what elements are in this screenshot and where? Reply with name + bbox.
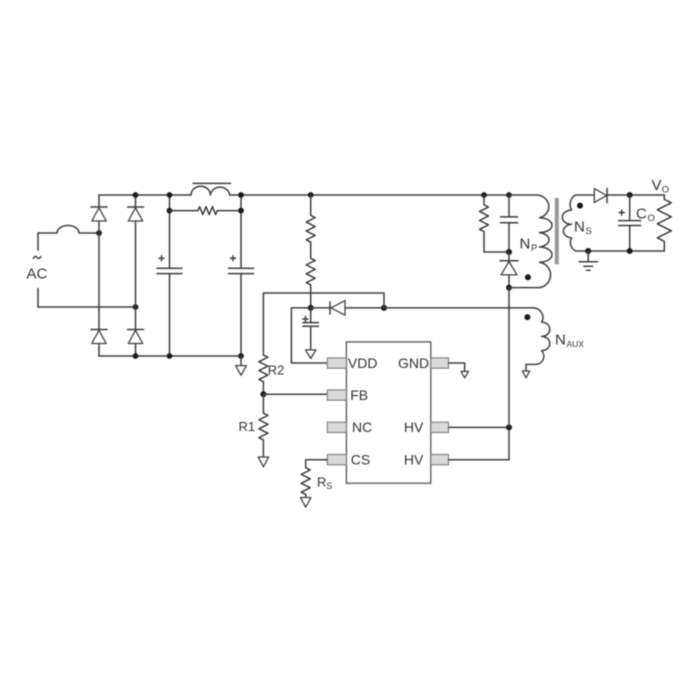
wire CS pin <box>306 460 328 468</box>
svg-text:N: N <box>520 236 531 253</box>
pin HV lower <box>431 455 449 465</box>
pin CS <box>327 455 346 465</box>
node AC hot / bridge left <box>96 230 102 236</box>
wire node B to aux winding <box>384 307 533 309</box>
svg-text:FB: FB <box>350 387 368 403</box>
capacitor clamp <box>501 195 518 252</box>
svg-text:N: N <box>555 332 566 349</box>
svg-text:V: V <box>652 177 662 194</box>
diode D2 bridge top-right <box>128 207 144 221</box>
pin FB <box>327 390 346 400</box>
capacitor C3 vdd <box>303 308 319 350</box>
wire top rail after inductor <box>230 194 509 196</box>
svg-text:AUX: AUX <box>567 339 585 349</box>
resistor load <box>657 195 671 251</box>
diode D5 vdd rectifier <box>311 301 384 316</box>
winding Np primary <box>509 195 552 288</box>
capacitor C2 bulk <box>229 195 254 356</box>
ground aux winding <box>522 371 529 378</box>
diode D4 bridge bottom-right <box>128 330 144 344</box>
resistor R1 <box>259 394 268 457</box>
wire vdd pin link <box>291 308 327 363</box>
pin HV upper <box>431 422 449 432</box>
node HV junction <box>506 424 512 430</box>
phase dot primary <box>525 274 531 280</box>
node C1 resistor tap <box>167 208 173 214</box>
resistor clamp <box>480 195 510 252</box>
winding Ns secondary <box>562 195 664 251</box>
wire HV lower pin <box>449 427 510 459</box>
capacitor C1 bulk <box>157 195 182 356</box>
resistor startup lower <box>306 242 315 308</box>
resistor startup upper <box>306 195 315 242</box>
wire AC neutral bottom <box>38 306 136 308</box>
svg-text:P: P <box>531 243 537 254</box>
svg-text:HV: HV <box>404 452 424 468</box>
capacitor Co output <box>619 195 641 251</box>
node A vdd junction <box>308 305 314 311</box>
svg-text:VDD: VDD <box>348 355 378 371</box>
pin GND <box>431 358 449 368</box>
node startup branch top <box>308 192 314 198</box>
inductor L1 <box>191 183 231 195</box>
pin NC <box>327 422 346 432</box>
diode D7 output rectifier <box>594 188 664 202</box>
phase dot secondary <box>577 203 583 209</box>
AC source leads <box>37 233 39 307</box>
AC tilde <box>33 256 41 258</box>
svg-text:O: O <box>662 185 669 196</box>
node output cap top <box>627 192 633 198</box>
node output cap bottom <box>627 248 633 254</box>
transformer core <box>555 198 559 264</box>
IC U1 body <box>346 342 430 483</box>
svg-text:AC: AC <box>27 266 48 283</box>
node primary bottom <box>506 285 512 291</box>
diode D3 bridge bottom-left <box>91 330 107 344</box>
resistor R2 <box>259 355 268 394</box>
node C2 resistor tap <box>238 208 244 214</box>
node B aux feed junction <box>381 305 387 311</box>
node top rail bridge right <box>133 192 139 198</box>
fuse F1 <box>38 226 99 234</box>
winding Naux auxiliary <box>526 308 550 371</box>
node C2 top <box>238 192 244 198</box>
resistor R3 damping parallel <box>170 207 242 215</box>
svg-text:CS: CS <box>351 452 370 468</box>
diode D1 bridge top-left <box>91 207 107 221</box>
svg-text:R2: R2 <box>268 363 285 378</box>
wire GND pin <box>449 363 465 371</box>
wire drain line <box>508 288 510 428</box>
resistor Rs <box>301 468 310 498</box>
node C2 bottom <box>238 353 244 359</box>
svg-text:O: O <box>648 213 655 224</box>
node bottom bridge right leg <box>133 353 139 359</box>
svg-text:S: S <box>326 481 332 491</box>
node C1 top <box>167 192 173 198</box>
node clamp resistor top <box>481 192 487 198</box>
wire HV upper pin <box>449 426 510 428</box>
svg-text:N: N <box>574 219 585 236</box>
ground bridge output <box>236 356 247 375</box>
node C feedback divider <box>260 391 266 397</box>
diode D6 clamp <box>500 252 518 288</box>
ground vdd cap <box>306 350 316 359</box>
pin VDD <box>327 358 346 368</box>
node secondary ground tap <box>585 248 591 254</box>
wire bottom rail <box>99 355 241 357</box>
wire bridge left leg <box>98 195 100 356</box>
ground Rs <box>301 498 311 508</box>
node C1 bottom <box>167 353 173 359</box>
svg-text:HV: HV <box>404 419 424 435</box>
svg-text:R: R <box>317 475 326 490</box>
svg-text:C: C <box>636 206 647 223</box>
svg-text:R1: R1 <box>239 419 256 434</box>
svg-text:S: S <box>586 226 592 237</box>
node clamp cap top <box>506 192 512 198</box>
ground R1 <box>258 457 268 467</box>
svg-text:NC: NC <box>352 419 372 435</box>
node AC neutral / bridge right <box>133 304 139 310</box>
wire top rail <box>99 194 191 196</box>
wire R2 top link <box>263 293 384 355</box>
wire bridge right leg <box>135 195 137 356</box>
node clamp bottom <box>506 249 512 255</box>
wire FB link <box>263 393 327 395</box>
earth ground secondary <box>579 251 597 270</box>
ground GND pin <box>461 371 468 378</box>
phase dot aux <box>524 314 530 320</box>
svg-text:GND: GND <box>398 355 429 371</box>
